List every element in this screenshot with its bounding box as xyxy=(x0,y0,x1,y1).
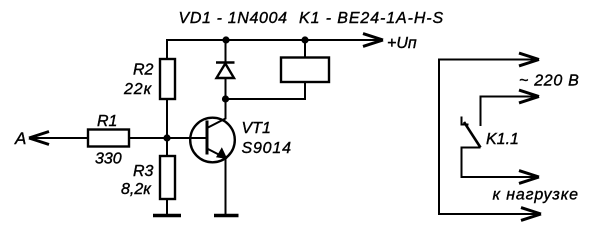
resistor R3 xyxy=(160,156,175,199)
arrow +Up arrowhead xyxy=(363,34,383,47)
wire collector node to transistor collector xyxy=(225,99,227,119)
wire R2 top (rail to R2) xyxy=(166,39,168,60)
wire base node to R3 xyxy=(166,138,168,157)
svg-text:VD1 - 1N4004: VD1 - 1N4004 xyxy=(179,10,288,27)
wire contact bottom jog xyxy=(462,148,537,178)
arrow A arrowhead xyxy=(29,132,49,145)
arrow bottom arrowhead xyxy=(521,208,541,221)
svg-text:K1.1: K1.1 xyxy=(486,131,519,148)
transistor VT1 emitter arrowhead xyxy=(217,148,227,158)
node base junction xyxy=(163,134,170,141)
transistor VT1 collector lead xyxy=(207,100,226,128)
svg-text:A: A xyxy=(14,129,26,148)
wire R1 to base node xyxy=(129,137,167,139)
wire bottom line xyxy=(438,213,538,215)
svg-text:VT1: VT1 xyxy=(242,120,271,137)
wire +Up rail xyxy=(167,39,381,41)
svg-text:R1: R1 xyxy=(97,113,117,130)
ground left xyxy=(153,214,181,218)
svg-text:22к: 22к xyxy=(123,81,153,98)
wire A to R1 xyxy=(30,137,89,139)
arrow 220V top arrowhead xyxy=(519,53,539,66)
svg-text:330: 330 xyxy=(95,151,122,168)
wire collector node to relay bottom xyxy=(226,82,306,99)
contact K1.1 blade xyxy=(464,122,481,148)
node diode top junction xyxy=(222,36,229,43)
relay coil K1 xyxy=(281,58,329,83)
svg-text:~ 220 В: ~ 220 В xyxy=(519,73,580,90)
svg-text:S9014: S9014 xyxy=(242,140,292,157)
wire 220V second line xyxy=(481,97,537,127)
wire emitter to ground xyxy=(225,157,227,215)
node collector junction xyxy=(222,95,229,102)
wire diode branch vertical xyxy=(225,40,227,100)
svg-text:R2: R2 xyxy=(133,62,154,79)
svg-text:к нагрузке: к нагрузке xyxy=(493,187,579,204)
arrow 220V second arrowhead xyxy=(519,90,539,103)
node relay top junction xyxy=(301,36,308,43)
arrow load arrowhead xyxy=(519,171,539,184)
transistor VT1 emitter lead xyxy=(207,149,226,159)
wire rail to relay top xyxy=(304,40,306,58)
diode VD1 triangle xyxy=(217,64,235,79)
transistor VT1 base bar xyxy=(206,121,209,155)
svg-text:+Uп: +Uп xyxy=(387,35,417,52)
wire R2 bottom (R2 to base node) xyxy=(166,99,168,139)
svg-text:R3: R3 xyxy=(133,163,154,180)
svg-text:K1 - BE24-1A-H-S: K1 - BE24-1A-H-S xyxy=(299,10,444,27)
wire contact left vertical xyxy=(438,60,440,215)
wire 220V top line xyxy=(438,59,536,61)
resistor R1 xyxy=(88,130,129,147)
diode VD1 cathode bar xyxy=(216,61,235,64)
resistor R2 xyxy=(160,59,175,99)
ground right xyxy=(214,214,239,218)
transistor VT1 circle xyxy=(190,118,235,163)
wire R3 to ground xyxy=(166,199,168,215)
wire base to transistor xyxy=(167,137,206,139)
svg-text:8,2к: 8,2к xyxy=(121,181,152,198)
contact K1.1 end stop tick xyxy=(462,117,469,125)
